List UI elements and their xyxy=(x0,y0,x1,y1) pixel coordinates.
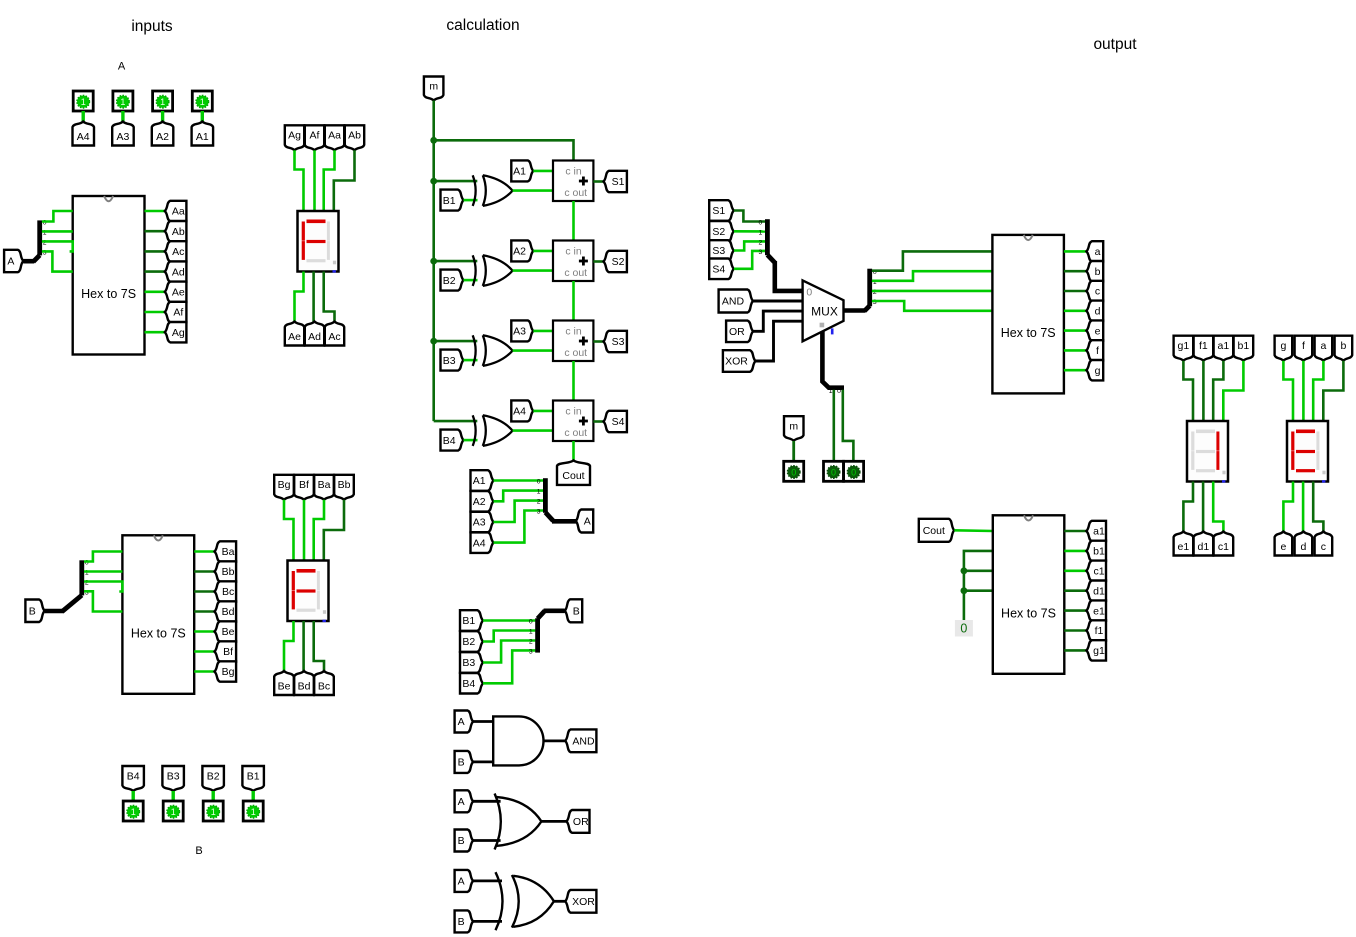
tunnel Af xyxy=(165,302,187,322)
svg-text:XOR: XOR xyxy=(572,896,595,908)
tunnel Bb (display top) xyxy=(334,475,354,500)
wire B4 to splitter bit3 xyxy=(483,650,535,683)
wire DS4 pin2 to d xyxy=(1302,482,1305,532)
svg-text:1: 1 xyxy=(537,489,541,496)
svg-text:0: 0 xyxy=(537,479,541,486)
wire U3 output b xyxy=(1064,270,1087,273)
mux enable blue tick xyxy=(831,328,834,334)
svg-text:e1: e1 xyxy=(1093,605,1105,617)
svg-text:2: 2 xyxy=(759,240,763,247)
wire A3 to splitter bit2 xyxy=(494,501,544,522)
svg-text:0: 0 xyxy=(831,467,836,477)
input pin select1 xyxy=(844,461,864,481)
wire XOR2 output to adder FA2 xyxy=(513,269,553,272)
tunnel b xyxy=(1086,261,1103,281)
wire A to OR gate xyxy=(473,800,501,803)
wire pin A4 to tunnel xyxy=(81,111,84,122)
wire A1 to splitter bit0 xyxy=(494,479,544,482)
svg-text:MUX: MUX xyxy=(811,305,838,319)
wire FA2 sum to S2 xyxy=(593,260,603,263)
wire XOR1 output to adder FA1 xyxy=(513,189,553,192)
wire U2 output Ba xyxy=(194,550,215,553)
tunnel b1 (display top) xyxy=(1234,336,1254,361)
wire B2 to XOR2 input xyxy=(464,279,478,282)
tunnel A (XOR input) xyxy=(455,870,474,892)
tunnel XOR (output) xyxy=(565,890,596,913)
svg-text:e1: e1 xyxy=(1178,541,1190,553)
wire B1 to XOR1 input xyxy=(464,199,478,202)
tunnel a xyxy=(1086,241,1103,261)
tunnel OR (MUX input) xyxy=(726,321,753,343)
xor gate X4 xyxy=(473,415,476,446)
tunnel B4 xyxy=(122,766,143,791)
wire pin A2 to tunnel xyxy=(161,111,164,122)
adder FA2 xyxy=(553,241,593,282)
chip U2 Hex to 7S xyxy=(122,535,194,694)
tunnel f (display top) xyxy=(1295,336,1313,361)
wire U3 output e xyxy=(1064,329,1087,332)
tunnel Bg xyxy=(215,661,237,681)
svg-text:f1: f1 xyxy=(1199,340,1208,352)
svg-text:g: g xyxy=(1280,340,1286,352)
wire FA3 sum to S3 xyxy=(593,340,603,343)
tunnel A4 (recombine) xyxy=(471,532,494,553)
wire m to adder1 carry-in xyxy=(434,140,574,160)
wire b1 to DS3 pin4 xyxy=(1223,361,1243,421)
tunnel Cout (output side) xyxy=(919,519,954,542)
tunnel A (AND input) xyxy=(455,711,474,733)
svg-text:A: A xyxy=(458,716,465,728)
svg-text:Bg: Bg xyxy=(222,666,235,678)
input pin B3 xyxy=(163,801,183,821)
7-segment display DS3 showing 1 xyxy=(1187,421,1228,482)
tunnel Cout xyxy=(557,460,590,485)
tunnel A3 (recombine) xyxy=(471,512,494,532)
tunnel S3 (output side) xyxy=(709,240,734,261)
tunnel Ae (display bottom) xyxy=(285,322,304,346)
tunnel OR (output) xyxy=(567,810,590,833)
wire FA1 sum to S1 xyxy=(593,180,603,183)
splitter SP2 (B 4-bit fanout) xyxy=(62,595,82,611)
or gate G2 xyxy=(495,794,501,850)
chip U4 Hex to 7S xyxy=(993,515,1065,674)
bus wire splitter to tunnel A xyxy=(552,519,576,524)
bus wire A to splitter xyxy=(23,259,34,264)
tunnel Ad xyxy=(165,261,187,281)
input pin A2 xyxy=(153,91,173,111)
svg-text:Aa: Aa xyxy=(328,130,341,142)
tunnel B (bus) xyxy=(565,599,582,622)
bus wire AND to MUX xyxy=(753,300,803,303)
svg-text:b1: b1 xyxy=(1093,546,1105,558)
splitter SP7 (MUX out fanout) xyxy=(865,306,870,311)
wire out bit1 to U3 pin2 xyxy=(872,271,993,281)
wire Cout to U4 pin1 xyxy=(954,529,993,532)
svg-text:e: e xyxy=(1095,325,1101,337)
wire U4 output d1 xyxy=(1064,589,1086,592)
svg-text:B: B xyxy=(458,916,465,928)
wire U3 output g xyxy=(1064,369,1087,372)
tunnel e xyxy=(1086,320,1103,340)
wire U1 output Ac xyxy=(145,250,166,253)
wire A4 to splitter bit3 xyxy=(494,511,544,543)
wire DS2 pin3 to Bc xyxy=(314,621,324,671)
svg-text:output: output xyxy=(1093,36,1137,53)
svg-text:Bb: Bb xyxy=(222,566,235,578)
svg-text:OR: OR xyxy=(573,816,589,828)
svg-text:B4: B4 xyxy=(462,678,475,690)
wire AND gate output xyxy=(544,740,566,743)
bus wire MUX output xyxy=(844,308,866,313)
svg-text:S2: S2 xyxy=(612,256,625,268)
svg-text:1: 1 xyxy=(211,807,216,817)
tunnel B (OR input) xyxy=(455,830,474,852)
wire U4 output b1 xyxy=(1064,550,1086,553)
adder FA3 xyxy=(553,321,593,362)
svg-text:B2: B2 xyxy=(462,636,475,648)
tunnel B2 xyxy=(441,270,464,291)
wire m tunnel to pin xyxy=(792,441,795,461)
svg-text:m: m xyxy=(789,420,798,432)
wire A3 to adder FA3 xyxy=(533,330,553,333)
wire B4 to XOR4 input xyxy=(464,439,478,442)
wire U1 output Ad xyxy=(145,270,166,273)
tunnel d1 xyxy=(1086,581,1106,601)
wire a1 to DS3 pin3 xyxy=(1213,361,1223,421)
svg-text:Bg: Bg xyxy=(278,479,291,491)
svg-text:1: 1 xyxy=(829,388,833,395)
svg-text:AND: AND xyxy=(722,296,745,308)
tunnel S2 xyxy=(604,251,627,272)
svg-text:B1: B1 xyxy=(247,770,260,782)
wire A1 to adder FA1 xyxy=(533,170,553,173)
wire Af to DS1 pin2 xyxy=(313,150,316,211)
tunnel S1 xyxy=(604,171,627,192)
wire select bit to pin 2 xyxy=(843,390,854,462)
svg-text:d1: d1 xyxy=(1198,541,1210,553)
wire f to DS4 pin2 xyxy=(1302,361,1305,421)
svg-text:g1: g1 xyxy=(1178,340,1190,352)
wire U1 output Af xyxy=(145,311,166,314)
svg-text:Ad: Ad xyxy=(308,331,321,343)
input pin B2 xyxy=(203,801,223,821)
svg-text:B: B xyxy=(573,606,580,618)
svg-text:B3: B3 xyxy=(443,355,456,367)
svg-text:B4: B4 xyxy=(127,770,140,782)
wire DS1 pin1 to Ae xyxy=(295,272,304,322)
wire B2 to splitter bit1 xyxy=(483,631,535,642)
splitter SP3 (A recombine) xyxy=(543,478,548,513)
tunnel B3 xyxy=(162,766,184,791)
constant 0 source xyxy=(955,620,973,637)
wire DS2 pin2 to Bd xyxy=(302,621,305,671)
svg-text:Bf: Bf xyxy=(223,646,233,658)
svg-text:0: 0 xyxy=(960,622,967,636)
wire DS3 pin3 to c1 xyxy=(1213,482,1223,532)
svg-text:Bc: Bc xyxy=(222,586,234,598)
svg-text:Aa: Aa xyxy=(172,206,185,218)
wire splitter bit1 to U1 pin2 xyxy=(42,230,73,233)
svg-text:Ab: Ab xyxy=(172,226,185,238)
svg-text:f1: f1 xyxy=(1095,625,1104,637)
wire pin A1 to tunnel xyxy=(201,111,204,122)
tunnel B1 (recombine) xyxy=(460,610,483,631)
svg-text:Ba: Ba xyxy=(318,479,331,491)
tunnel B (input side) xyxy=(25,600,44,623)
svg-text:g1: g1 xyxy=(1093,645,1105,657)
svg-text:S3: S3 xyxy=(712,245,725,257)
wire Bg to DS2 pin1 xyxy=(284,500,294,561)
wire DS3 pin2 to d1 xyxy=(1202,482,1205,532)
splitter SP1 (A 4-bit fanout) xyxy=(33,255,40,262)
svg-text:Ad: Ad xyxy=(172,266,185,278)
svg-text:0: 0 xyxy=(529,619,533,626)
bus wire B to splitter xyxy=(45,609,64,614)
wire FA4 sum to S4 xyxy=(593,420,603,423)
svg-text:b1: b1 xyxy=(1238,340,1250,352)
svg-text:AND: AND xyxy=(572,736,595,748)
tunnel A (bus) xyxy=(576,510,593,533)
junction node on m line row 1 xyxy=(430,178,437,185)
wire S4 to splitter bit3 xyxy=(734,251,765,269)
svg-text:Hex to 7S: Hex to 7S xyxy=(81,287,136,301)
svg-text:A: A xyxy=(458,796,465,808)
wire m line to XOR4 input xyxy=(434,420,478,423)
tunnel Bc xyxy=(215,581,237,601)
tunnel g xyxy=(1086,360,1103,380)
svg-text:1: 1 xyxy=(160,97,165,107)
svg-text:d: d xyxy=(1095,306,1101,318)
wire A4 to adder FA4 xyxy=(533,410,553,413)
svg-text:Bc: Bc xyxy=(318,680,330,692)
svg-text:b: b xyxy=(1340,340,1346,352)
svg-text:c in: c in xyxy=(565,165,582,177)
wire splitter bit3 to U2 pin4 xyxy=(84,591,122,611)
svg-text:S2: S2 xyxy=(712,226,725,238)
wire out bit3 to U3 pin4 xyxy=(872,301,993,311)
svg-text:B3: B3 xyxy=(167,770,180,782)
tunnel Bb xyxy=(215,561,237,581)
svg-text:Ae: Ae xyxy=(172,287,185,299)
svg-text:B: B xyxy=(29,606,36,618)
tunnel S1 (output side) xyxy=(709,200,734,221)
wire Ba to DS2 pin3 xyxy=(314,500,324,561)
and gate G1 xyxy=(493,716,543,765)
tunnel Ac (display bottom) xyxy=(325,322,344,346)
wire a to DS4 pin3 xyxy=(1313,361,1323,421)
multiplexer U5 MUX xyxy=(803,280,844,341)
wire U2 output Bb xyxy=(194,570,215,573)
svg-text:3: 3 xyxy=(529,649,533,656)
svg-text:1: 1 xyxy=(171,807,176,817)
svg-text:Af: Af xyxy=(173,307,183,319)
wire U4 output c1 xyxy=(1064,569,1086,572)
tunnel B (AND input) xyxy=(455,751,474,773)
svg-text:Be: Be xyxy=(278,680,291,692)
wire XOR4 output to adder FA4 xyxy=(513,429,553,432)
wire U1 output Ag xyxy=(145,331,166,334)
chip U1 Hex to 7S xyxy=(73,196,145,355)
wire U3 output f xyxy=(1064,349,1087,352)
svg-text:c1: c1 xyxy=(1218,541,1229,553)
svg-text:e: e xyxy=(1280,541,1286,553)
wire DS1 pin3 to Ac xyxy=(324,272,335,322)
svg-text:Hex to 7S: Hex to 7S xyxy=(1001,607,1056,621)
input pin select0 xyxy=(824,461,844,481)
wire pin A3 to tunnel xyxy=(121,111,124,122)
tunnel f xyxy=(1086,340,1103,360)
tunnel d1 (display bottom) xyxy=(1194,532,1214,556)
wire splitter bit0 to U1 pin1 xyxy=(42,211,73,222)
tunnel g1 (display top) xyxy=(1174,336,1194,361)
svg-text:0: 0 xyxy=(759,220,763,227)
wire U4 output g1 xyxy=(1064,649,1086,652)
tunnel A1 xyxy=(192,122,214,146)
tunnel B4 xyxy=(441,430,464,451)
svg-text:Ab: Ab xyxy=(348,130,361,142)
svg-text:S4: S4 xyxy=(712,264,725,276)
svg-text:c: c xyxy=(1321,541,1326,553)
tunnel B4 (recombine) xyxy=(460,673,483,694)
tunnel A4 xyxy=(511,400,533,421)
svg-text:1: 1 xyxy=(131,807,136,817)
tunnel a1 xyxy=(1086,521,1106,541)
svg-text:Hex to 7S: Hex to 7S xyxy=(131,627,186,641)
svg-text:g: g xyxy=(1095,365,1101,377)
input pin B1 xyxy=(243,801,263,821)
tunnel B (XOR input) xyxy=(455,910,474,932)
svg-text:A3: A3 xyxy=(116,131,129,143)
svg-text:c out: c out xyxy=(564,267,587,279)
tunnel B2 (recombine) xyxy=(460,631,483,652)
svg-text:d1: d1 xyxy=(1093,585,1105,597)
svg-text:Ae: Ae xyxy=(288,331,301,343)
tunnel Aa xyxy=(165,201,187,221)
tunnel XOR (MUX input) xyxy=(723,350,756,372)
wire Bf to DS2 pin2 xyxy=(303,500,306,561)
adder FA4 xyxy=(553,401,593,442)
wire B to XOR gate xyxy=(473,920,502,923)
svg-text:calculation: calculation xyxy=(446,17,519,34)
svg-text:OR: OR xyxy=(729,326,745,338)
svg-text:c: c xyxy=(1095,286,1100,298)
xor gate G3 xyxy=(496,872,503,930)
tunnel Bc (display bottom) xyxy=(314,671,334,695)
wire U2 output Bd xyxy=(194,610,215,613)
svg-text:c1: c1 xyxy=(1093,566,1104,578)
tunnel A3 xyxy=(511,320,533,341)
wire tunnel B1 to pin xyxy=(251,791,254,801)
svg-text:a1: a1 xyxy=(1218,340,1230,352)
svg-text:0: 0 xyxy=(851,467,856,477)
wire out bit2 to U3 pin3 xyxy=(872,290,993,293)
wire XOR3 output to adder FA3 xyxy=(513,349,553,352)
mux select marker xyxy=(820,323,825,328)
svg-text:Hex to 7S: Hex to 7S xyxy=(1001,326,1056,340)
tunnel S3 xyxy=(604,331,627,352)
svg-text:d: d xyxy=(1300,541,1306,553)
wire m line to XOR1 input xyxy=(434,180,478,183)
wire B1 to splitter bit0 xyxy=(483,619,535,622)
svg-text:1: 1 xyxy=(120,97,125,107)
tunnel Ba (display top) xyxy=(314,475,334,500)
tunnel Ag (display top) xyxy=(285,125,304,150)
wire DS1 pin2 to Ad xyxy=(312,272,315,322)
chip U3 Hex to 7S xyxy=(992,235,1064,394)
svg-text:1: 1 xyxy=(759,230,763,237)
7-segment display DS4 showing E xyxy=(1287,421,1328,482)
svg-text:Bd: Bd xyxy=(298,680,311,692)
tunnel a (display top) xyxy=(1315,336,1333,361)
xor gate X2 xyxy=(473,255,476,286)
wire U4 output e1 xyxy=(1064,609,1086,612)
wire f1 to DS3 pin2 xyxy=(1202,361,1205,421)
svg-text:B4: B4 xyxy=(443,435,456,447)
svg-text:A: A xyxy=(7,256,14,268)
tunnel Af (display top) xyxy=(305,125,324,150)
tunnel AND (MUX input) xyxy=(719,290,753,313)
junction node on m line at carry tap xyxy=(430,137,437,144)
input pin A3 xyxy=(113,91,133,111)
svg-text:1: 1 xyxy=(81,97,86,107)
tunnel Aa (display top) xyxy=(325,125,344,150)
wire tunnel B4 to pin xyxy=(131,791,134,801)
tunnel A (OR input) xyxy=(455,790,474,812)
tunnel S4 (output side) xyxy=(709,259,734,280)
wire carry FA2 to FA3 xyxy=(572,281,575,321)
wire const to U4 pin3 xyxy=(964,569,993,572)
svg-text:A4: A4 xyxy=(473,537,486,549)
tunnel A2 (recombine) xyxy=(471,491,494,512)
tunnel b (display top) xyxy=(1335,336,1353,361)
svg-text:A1: A1 xyxy=(196,131,209,143)
wire Ab to DS1 pin4 xyxy=(334,150,355,211)
tunnel d (display bottom) xyxy=(1295,532,1313,556)
svg-text:S4: S4 xyxy=(612,416,625,428)
wire out bit0 to U3 pin1 xyxy=(872,251,993,270)
svg-text:2: 2 xyxy=(529,639,533,646)
svg-text:0: 0 xyxy=(837,388,841,395)
tunnel c1 xyxy=(1086,561,1106,581)
tunnel f1 (display top) xyxy=(1194,336,1214,361)
tunnel Ab xyxy=(165,221,187,241)
svg-text:S1: S1 xyxy=(612,176,625,188)
wire S1 to splitter bit0 xyxy=(734,211,765,222)
wire U3 output d xyxy=(1064,309,1087,312)
tunnel Bd xyxy=(215,601,237,621)
svg-text:B1: B1 xyxy=(462,615,475,627)
splitter SP4 (B recombine) xyxy=(535,618,540,652)
bus wire splitter to tunnel B xyxy=(544,608,565,613)
tunnel Ba xyxy=(215,541,237,561)
svg-text:Ba: Ba xyxy=(222,546,235,558)
7-segment display DS2 showing F xyxy=(288,561,329,622)
svg-text:0: 0 xyxy=(791,467,796,477)
tunnel c (display bottom) xyxy=(1315,532,1333,556)
tunnel A1 (recombine) xyxy=(471,470,494,491)
svg-text:1: 1 xyxy=(529,629,533,636)
svg-text:f: f xyxy=(1302,340,1305,352)
wire U1 output Aa xyxy=(145,210,166,213)
wire splitter bit3 to U1 pin4 xyxy=(42,251,73,271)
junction node const line 1 xyxy=(961,567,968,574)
tunnel B3 xyxy=(441,350,464,371)
tunnel B3 (recombine) xyxy=(460,652,483,673)
junction node on m line row 2 xyxy=(430,258,437,265)
svg-text:B3: B3 xyxy=(462,657,475,669)
tunnel e1 (display bottom) xyxy=(1174,532,1194,556)
wire tunnel B2 to pin xyxy=(211,791,214,801)
